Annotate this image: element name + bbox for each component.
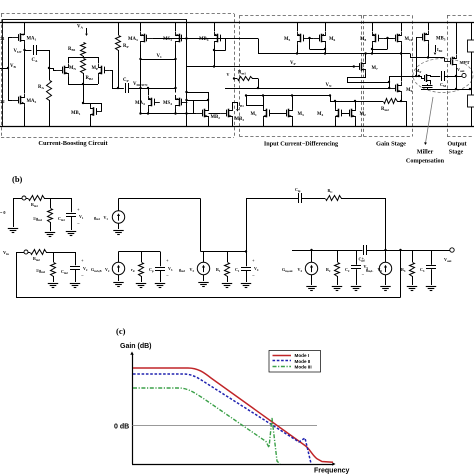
transistor M5	[303, 38, 309, 40]
svg-text:MP: MP	[92, 66, 99, 71]
capacitor Cin2 with voltage V2	[75, 252, 77, 265]
callout arrow to miller compensation	[426, 97, 434, 143]
svg-text:Output: Output	[447, 141, 467, 148]
wire M9 drain up to rail	[401, 54, 403, 82]
outer dashed box: current-boosting circuit region	[1, 13, 234, 15]
svg-text:V1: V1	[157, 54, 162, 59]
transistor MS3	[182, 38, 188, 40]
resistor RB1	[81, 43, 86, 57]
wire MA2 source to bottom rail	[24, 107, 26, 127]
svg-text:M7: M7	[372, 66, 379, 71]
svg-text:R1: R1	[216, 267, 221, 273]
bias current arrow IB1	[237, 102, 239, 109]
svg-text:CM: CM	[440, 82, 446, 88]
svg-text:1/gm2: 1/gm2	[36, 268, 46, 274]
transistor M1 (diode-connected)	[269, 113, 275, 115]
wire differential pair bottom rail	[68, 77, 70, 84]
svg-text:IB1: IB1	[239, 102, 245, 108]
curve mode I (red)	[133, 368, 333, 462]
svg-text:−: −	[252, 273, 255, 278]
0 dB reference line	[133, 425, 318, 427]
transistor M8 (diode-connected)	[378, 38, 384, 40]
resistor Rin2	[28, 252, 30, 254]
wire MA1 source to VDD	[24, 23, 26, 31]
svg-text:−: −	[77, 221, 80, 226]
svg-text:M8: M8	[360, 37, 367, 42]
transistor M4	[341, 113, 347, 115]
transistor M3	[280, 113, 286, 115]
svg-text:MA1: MA1	[27, 37, 37, 42]
svg-text:Cip: Cip	[295, 187, 301, 193]
output terminal Vout	[450, 248, 454, 252]
feedback wire bottom	[16, 297, 401, 299]
svg-text:Gain Stage: Gain Stage	[376, 141, 406, 148]
series capacitor Cgd on output wire	[363, 246, 367, 255]
resistor 1/gm2	[53, 252, 55, 262]
svg-text:VN: VN	[326, 83, 332, 88]
svg-text:V4: V4	[254, 266, 259, 272]
wire MP gate to VDOWN line	[110, 70, 112, 72]
transistor MP	[104, 70, 110, 72]
wire M9 gate connection	[389, 82, 391, 88]
wire M8/M10 gate tie and diode loop	[384, 38, 393, 40]
svg-text:VP: VP	[290, 61, 296, 66]
svg-text:Frequency: Frequency	[314, 468, 350, 474]
wire MS3 gate node to M5/M6 drain rail (stepped)	[187, 38, 259, 40]
transistor M7	[354, 66, 360, 68]
svg-text:(b): (b)	[12, 174, 23, 184]
dependent current source GmA,B V2	[112, 262, 124, 274]
svg-text:V1: V1	[79, 214, 84, 220]
svg-text:Compensation: Compensation	[406, 158, 445, 165]
svg-text:V2: V2	[83, 266, 88, 272]
wire differential pair top rail	[68, 57, 98, 59]
svg-text:Input Current−Differencing: Input Current−Differencing	[264, 141, 339, 148]
svg-text:Cp: Cp	[149, 267, 154, 273]
transistor M6	[313, 38, 319, 40]
output row wire	[292, 250, 450, 252]
svg-text:−: −	[166, 273, 169, 278]
transistor MB4 (diode-connected)	[220, 38, 226, 40]
dependent current source gm3V3	[197, 262, 209, 274]
svg-text:gm3: gm3	[179, 267, 185, 273]
feedback wire from output	[16, 252, 24, 254]
svg-text:Vin: Vin	[3, 250, 9, 256]
svg-text:Mode III: Mode III	[295, 365, 312, 370]
wire MA1/MA2 gate bus	[8, 37, 13, 39]
legend box	[269, 351, 321, 373]
ground below gm3V3	[203, 275, 205, 281]
wire CA to node, down to RA and MN gate	[49, 50, 51, 80]
svg-text:Gain (dB): Gain (dB)	[120, 343, 152, 350]
svg-text:MA2: MA2	[27, 99, 37, 104]
y axis	[132, 354, 134, 464]
svg-text:RC: RC	[328, 188, 333, 194]
svg-text:Mode II: Mode II	[295, 359, 311, 364]
curve mode II (blue dashed)	[133, 374, 311, 464]
wire MA1 drain to MA2 drain (node VUP)	[24, 45, 26, 94]
wire MB4 drain to VP rail	[214, 45, 216, 67]
svg-text:MB1: MB1	[71, 111, 81, 116]
rail VP	[187, 66, 354, 68]
svg-text:M6: M6	[329, 37, 336, 42]
node VDOWN	[139, 87, 141, 89]
wire gm1V1 output to node V4	[118, 199, 120, 211]
svg-text:G2: G2	[0, 99, 5, 104]
wire box-edge vertical bus	[186, 20, 188, 127]
wire MS3 drain down through VDOWN wire	[175, 45, 177, 93]
wire MB5 drain to MPT gate wire	[428, 44, 430, 58]
input terminal Vref	[22, 196, 26, 200]
curve mode III (green dash-dot)	[133, 388, 280, 464]
svg-text:R2: R2	[326, 267, 331, 273]
load resistor (cropped at edge)	[471, 23, 473, 41]
svg-text:M5: M5	[284, 37, 291, 42]
svg-text:Vout: Vout	[444, 257, 452, 263]
resistor RB2	[81, 59, 86, 74]
transistor MA3	[147, 38, 153, 40]
solid box: current-boosting circuit	[3, 20, 187, 127]
svg-text:Miller: Miller	[417, 149, 434, 156]
wire input node row2	[46, 252, 75, 254]
svg-text:V5: V5	[378, 267, 383, 273]
legend entry mode III	[273, 366, 292, 368]
rail with resistor Rm2	[330, 101, 383, 103]
transistor MN	[56, 70, 62, 72]
transistor MA1	[13, 37, 19, 39]
svg-text:Rm1: Rm1	[238, 71, 246, 76]
node V4 wire	[201, 251, 247, 253]
svg-text:C1: C1	[235, 267, 240, 273]
resistor 1/gm1	[50, 198, 52, 208]
svg-text:GmA,B: GmA,B	[91, 267, 102, 273]
svg-text:RB1: RB1	[68, 47, 76, 52]
output wire along VN extension	[421, 89, 470, 91]
svg-text:MS3: MS3	[163, 37, 172, 42]
wire lower rail of current-boosting circuit	[141, 113, 197, 115]
resistor rd	[141, 252, 143, 263]
svg-text:M2: M2	[360, 112, 367, 117]
transistor MB1 (diode-connected)	[96, 111, 102, 113]
svg-text:CP: CP	[123, 78, 129, 83]
svg-text:RA: RA	[38, 85, 44, 90]
resistor RA	[47, 81, 52, 101]
wire drain rail step down to Rm2 rail	[330, 96, 332, 102]
ground/source bottom rail	[0, 126, 474, 128]
compensation branch wire	[246, 198, 248, 252]
transistor MA4	[154, 102, 160, 104]
legend entry mode I	[273, 355, 292, 357]
svg-text:MB4: MB4	[199, 37, 209, 42]
svg-text:V3: V3	[190, 267, 195, 273]
capacitor Cip	[298, 193, 300, 203]
resistor Rm1	[233, 77, 235, 79]
resistor R2	[337, 250, 339, 262]
dashed box: input current-differencing stage	[240, 15, 362, 17]
dashed box: output stage	[447, 15, 474, 17]
legend entry mode II	[273, 360, 292, 362]
transistor M9	[389, 88, 395, 90]
svg-text:MPT: MPT	[460, 60, 470, 65]
wire MPT drain to output node	[456, 68, 458, 89]
wire MB5 gate down to output node wire	[416, 37, 418, 76]
svg-text:M3: M3	[298, 112, 305, 117]
dependent current source Gm,out V4	[305, 262, 317, 274]
svg-text:Cin2: Cin2	[61, 269, 68, 275]
transistor MPT	[444, 61, 450, 63]
dashed ellipse: miller compensation network	[413, 59, 473, 93]
dependent current source gm1V1	[112, 211, 124, 223]
wire M7 source path	[348, 74, 420, 83]
svg-text:gm1: gm1	[94, 215, 100, 221]
resistor RP	[118, 23, 120, 36]
svg-text:Rm2: Rm2	[381, 107, 389, 112]
VDD supply rail	[0, 22, 474, 24]
svg-text:Rin2: Rin2	[33, 256, 40, 262]
capacitor C1 with voltage V4	[246, 252, 248, 267]
svg-text:VB: VB	[10, 64, 16, 69]
capacitor CM (miller)	[433, 76, 440, 78]
svg-text:rd: rd	[131, 267, 135, 273]
resistor R1	[227, 252, 229, 263]
svg-text:MB2: MB2	[211, 115, 221, 120]
svg-text:+: +	[77, 207, 80, 212]
svg-text:(c): (c)	[116, 326, 126, 336]
svg-text:VA: VA	[77, 25, 83, 30]
wire M7 drain to M5/M6 rail	[365, 54, 367, 60]
transistor MA2	[13, 100, 19, 102]
x axis	[132, 464, 333, 466]
wire M5/M6 gate tie, diode connection of M6	[309, 38, 313, 40]
svg-text:M10: M10	[405, 37, 413, 42]
dependent current source gm,L V5	[379, 262, 391, 274]
resistor Rin1	[26, 198, 28, 200]
svg-text:M9: M9	[406, 88, 413, 93]
wire input mirror drain rail	[246, 95, 330, 97]
svg-text:C3: C3	[420, 267, 425, 273]
node V3 wire	[119, 251, 161, 253]
svg-text:Stage: Stage	[449, 149, 464, 156]
wire to MPT gate	[404, 53, 410, 55]
wire MA3/MS3 gate bus to box edge	[152, 38, 186, 40]
transistor MB3 (mirror of MB2)	[220, 113, 226, 115]
svg-text:M4: M4	[317, 112, 324, 117]
svg-text:MS4: MS4	[163, 101, 172, 106]
svg-text:MA3: MA3	[128, 37, 138, 42]
resistor RC	[326, 196, 342, 201]
capacitor Cin1 with voltage V1	[71, 198, 73, 212]
svg-text:= 0: = 0	[0, 210, 6, 215]
svg-text:Mode I: Mode I	[295, 353, 310, 358]
svg-text:−: −	[81, 273, 84, 278]
svg-text:+: +	[81, 258, 84, 263]
svg-text:MA4: MA4	[135, 101, 145, 106]
ground below gm1V1	[118, 223, 120, 229]
svg-text:C2: C2	[345, 267, 350, 273]
transistor M2 (diode-connected)	[343, 113, 349, 115]
svg-text:V1: V1	[104, 215, 109, 221]
svg-text:V2: V2	[105, 267, 110, 273]
svg-text:MN: MN	[69, 66, 77, 71]
svg-text:1/gm1: 1/gm1	[33, 216, 43, 222]
svg-text:Rin1: Rin1	[31, 202, 38, 208]
output terminal Vout	[462, 73, 466, 77]
svg-text:CA: CA	[32, 58, 38, 63]
svg-text:RP: RP	[123, 44, 129, 49]
svg-text:+: +	[166, 258, 169, 263]
node VB	[7, 67, 9, 69]
svg-text:MB5: MB5	[436, 37, 446, 42]
rail VN	[225, 88, 389, 90]
svg-text:0 dB: 0 dB	[114, 424, 129, 431]
wire M4/M2 gate tie	[341, 113, 349, 115]
wire input node row1	[44, 198, 71, 200]
transistor M10	[389, 38, 395, 40]
transistor MB5	[416, 37, 422, 39]
svg-text:IB2: IB2	[437, 47, 443, 53]
svg-text:−: −	[362, 272, 365, 277]
svg-text:VUP: VUP	[14, 49, 22, 54]
capacitor CA	[25, 50, 32, 52]
capacitor C3	[431, 250, 433, 265]
svg-text:Current-Boosting Circuit: Current-Boosting Circuit	[38, 140, 108, 147]
svg-text:Vout: Vout	[457, 67, 465, 73]
svg-text:Gm,out: Gm,out	[282, 267, 293, 273]
svg-text:V: V	[227, 72, 230, 77]
wire MA3 drain down to lower rail	[140, 45, 142, 114]
svg-text:R3: R3	[401, 267, 406, 273]
transistor MS4	[182, 102, 188, 104]
capacitor Cp with voltage V3	[160, 252, 162, 267]
svg-text:Cin1: Cin1	[58, 216, 65, 222]
capacitor CP	[118, 88, 124, 90]
resistor R3	[412, 250, 414, 262]
svg-text:gm,L: gm,L	[366, 267, 373, 273]
svg-text:G1: G1	[0, 36, 5, 41]
svg-text:V4: V4	[298, 267, 303, 273]
wire and ground at reference input	[13, 198, 22, 200]
ground below GmA,B	[118, 275, 120, 281]
svg-text:RB2: RB2	[86, 76, 94, 81]
svg-text:+: +	[252, 258, 255, 263]
wire M9 source to Rm2 rail	[401, 95, 403, 101]
svg-text:V3: V3	[168, 266, 173, 272]
svg-text:M1: M1	[251, 112, 258, 117]
capacitor C2 with voltage V5	[356, 250, 358, 265]
wire pair tail down to MB1	[83, 84, 85, 103]
wire M5/M6 drain rail	[258, 53, 404, 55]
transistor MB2 (diode-connected)	[196, 113, 202, 115]
load capacitor (cropped at edge)	[471, 89, 473, 95]
bias current arrow IB2	[435, 45, 437, 52]
node V1	[141, 59, 176, 61]
svg-text:MB3: MB3	[235, 117, 245, 122]
compensation branch down to output node	[385, 198, 387, 250]
wire M1/M3 gate tie	[269, 113, 286, 115]
dashed box: gain stage	[364, 15, 413, 17]
